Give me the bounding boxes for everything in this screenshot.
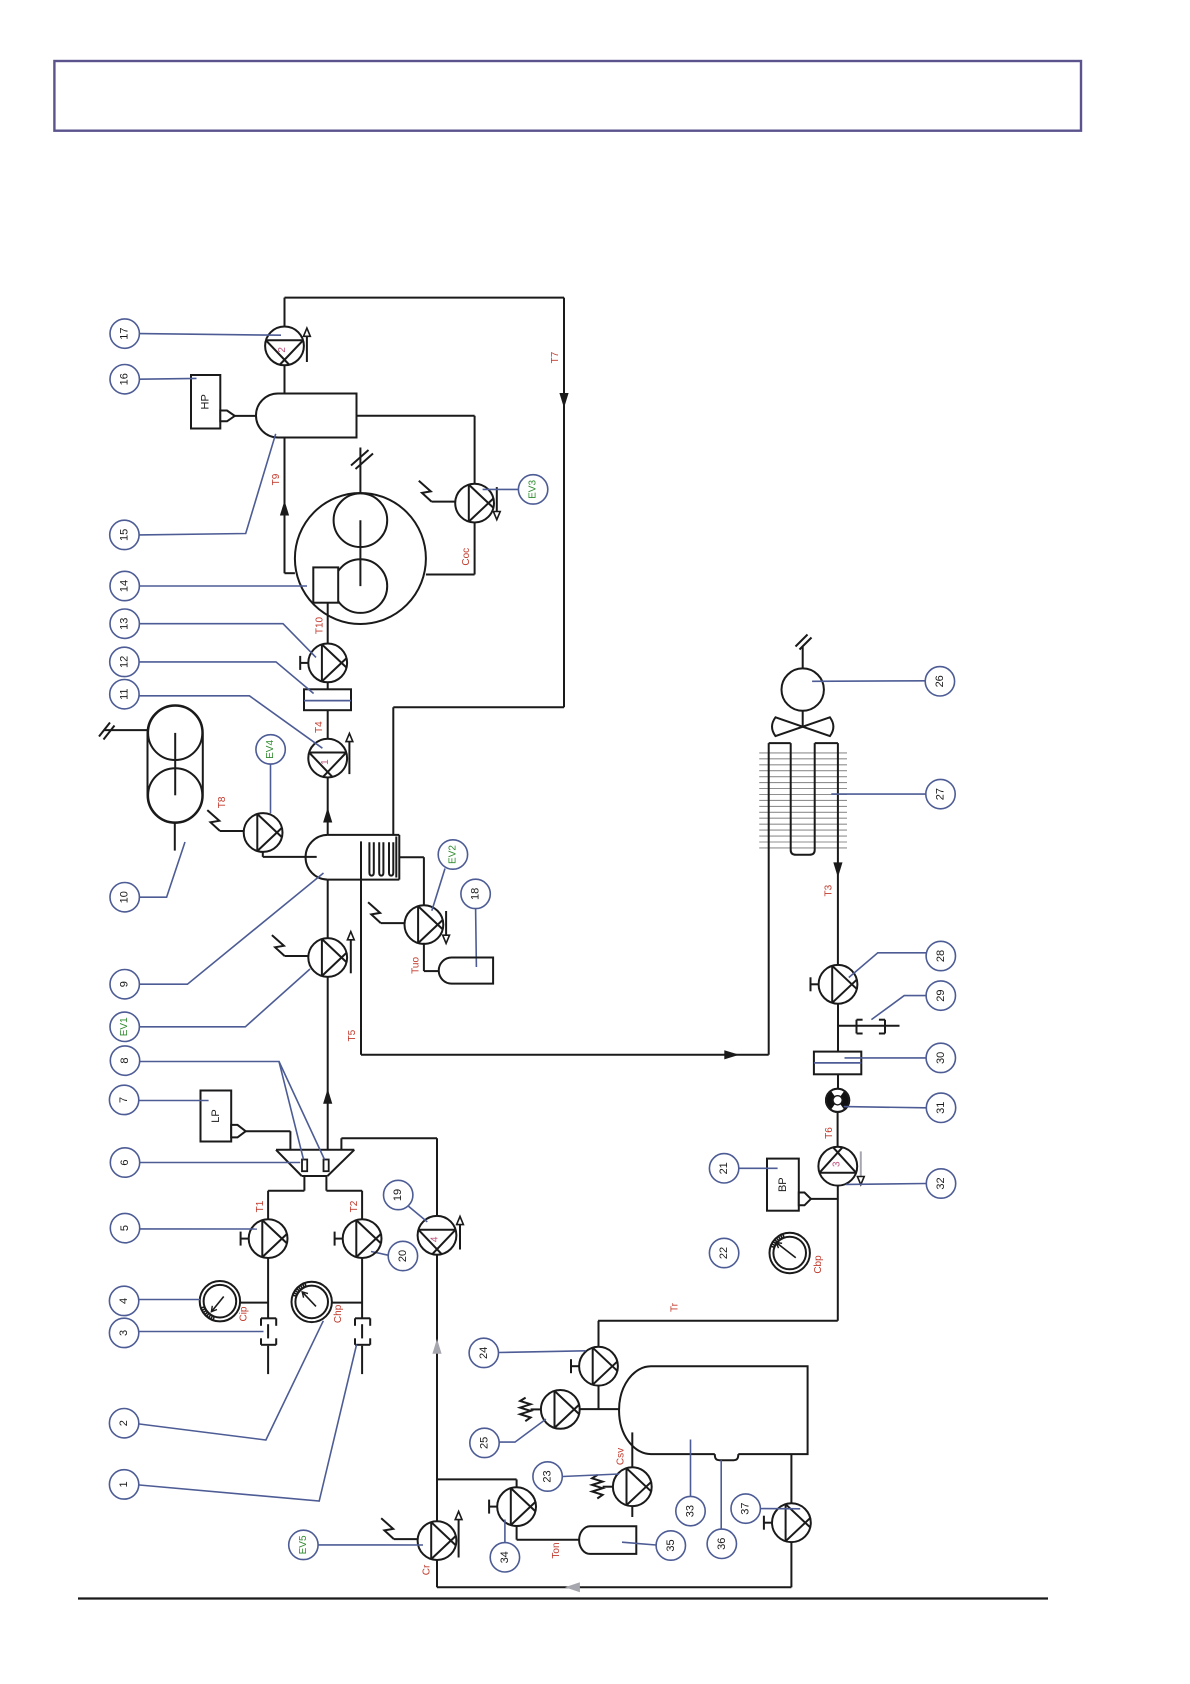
svg-text:28: 28 [935,950,947,962]
svg-text:EV1: EV1 [119,1017,130,1036]
svg-text:T7: T7 [550,351,561,363]
svg-text:16: 16 [119,373,131,385]
svg-text:T2: T2 [349,1200,360,1212]
svg-text:EV3: EV3 [528,480,539,499]
svg-text:2: 2 [118,1420,130,1426]
svg-text:15: 15 [118,529,130,541]
svg-text:T10: T10 [315,616,326,634]
svg-text:25: 25 [479,1437,491,1449]
svg-text:5: 5 [119,1225,131,1231]
svg-text:12: 12 [118,656,130,668]
svg-text:36: 36 [716,1538,728,1550]
svg-text:18: 18 [470,888,482,900]
svg-text:Cr: Cr [422,1564,433,1575]
svg-text:1: 1 [320,759,331,765]
svg-text:EV5: EV5 [298,1535,309,1554]
svg-text:T8: T8 [217,796,228,808]
svg-text:31: 31 [935,1102,947,1114]
svg-text:35: 35 [665,1539,677,1551]
svg-text:LP: LP [210,1109,222,1122]
svg-text:Ton: Ton [551,1542,562,1558]
svg-text:32: 32 [935,1177,947,1189]
svg-text:30: 30 [935,1052,947,1064]
svg-text:Tr: Tr [669,1302,680,1312]
svg-text:26: 26 [934,675,946,687]
svg-text:6: 6 [119,1159,131,1165]
svg-text:T6: T6 [824,1127,835,1139]
svg-text:8: 8 [119,1058,131,1064]
svg-text:T1: T1 [255,1200,266,1212]
svg-text:13: 13 [119,618,131,630]
svg-text:T9: T9 [271,473,282,485]
svg-text:9: 9 [119,981,131,987]
svg-text:27: 27 [935,788,947,800]
svg-text:34: 34 [499,1551,511,1563]
svg-text:1: 1 [118,1481,130,1487]
svg-text:21: 21 [718,1162,730,1174]
svg-text:BP: BP [777,1177,789,1192]
svg-text:4: 4 [118,1298,130,1304]
svg-text:T4: T4 [314,721,325,733]
svg-text:Tuo: Tuo [410,957,421,974]
svg-text:29: 29 [935,989,947,1001]
svg-text:7: 7 [118,1097,130,1103]
svg-text:3: 3 [831,1161,842,1167]
svg-text:17: 17 [119,327,131,339]
svg-text:T3: T3 [824,884,835,896]
svg-text:EV4: EV4 [265,740,276,759]
svg-text:Coc: Coc [461,548,472,566]
svg-text:24: 24 [478,1347,490,1359]
svg-text:Chp: Chp [333,1304,344,1323]
svg-text:14: 14 [119,580,131,592]
svg-text:4: 4 [430,1236,441,1242]
svg-text:2: 2 [277,347,288,353]
svg-text:37: 37 [740,1502,752,1514]
svg-text:19: 19 [392,1189,404,1201]
svg-text:20: 20 [397,1250,409,1262]
svg-text:3: 3 [118,1330,130,1336]
svg-text:Cbp: Cbp [813,1255,824,1274]
svg-text:23: 23 [542,1470,554,1482]
svg-text:10: 10 [119,891,131,903]
svg-text:HP: HP [200,394,212,409]
svg-text:Csv: Csv [616,1448,627,1465]
svg-text:22: 22 [718,1247,730,1259]
svg-text:11: 11 [118,688,130,699]
svg-text:EV2: EV2 [447,845,458,864]
svg-text:33: 33 [685,1505,697,1517]
svg-text:T5: T5 [347,1029,358,1041]
svg-text:Cip: Cip [239,1306,250,1321]
